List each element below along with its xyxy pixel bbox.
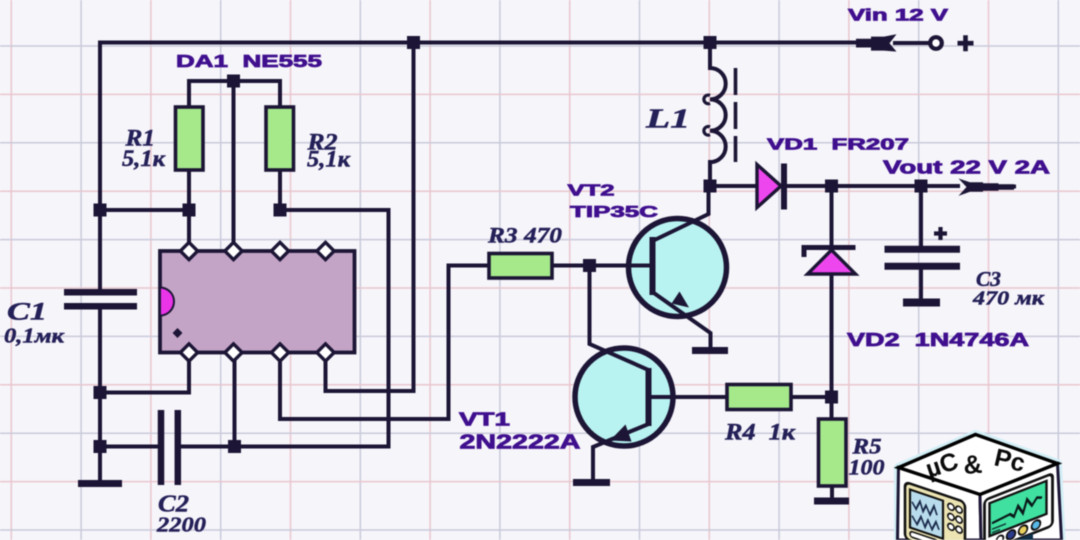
svg-text:0,1мк: 0,1мк <box>4 324 66 348</box>
svg-text:R3 470: R3 470 <box>487 223 562 248</box>
svg-text:5,1к: 5,1к <box>307 147 351 172</box>
svg-text:DA1 NE555: DA1 NE555 <box>176 51 322 71</box>
svg-text:VT2: VT2 <box>568 183 615 200</box>
svg-text:100: 100 <box>849 455 885 480</box>
svg-text:&: & <box>962 449 983 480</box>
svg-text:5,1к: 5,1к <box>122 146 166 171</box>
svg-text:VT1: VT1 <box>459 409 510 430</box>
svg-text:Vin 12 V: Vin 12 V <box>848 6 948 24</box>
svg-text:VD1 FR207: VD1 FR207 <box>767 137 909 154</box>
svg-text:VD2 1N4746A: VD2 1N4746A <box>847 329 1029 350</box>
svg-text:R4 1к: R4 1к <box>724 420 797 445</box>
svg-text:L1: L1 <box>645 104 690 134</box>
svg-text:2200: 2200 <box>156 513 206 537</box>
svg-text:Vout 22 V 2A: Vout 22 V 2A <box>883 156 1050 177</box>
svg-text:C1: C1 <box>7 299 47 326</box>
svg-text:2N2222A: 2N2222A <box>460 431 581 454</box>
svg-text:470 мк: 470 мк <box>972 288 1045 310</box>
svg-text:TIP35C: TIP35C <box>570 204 659 221</box>
